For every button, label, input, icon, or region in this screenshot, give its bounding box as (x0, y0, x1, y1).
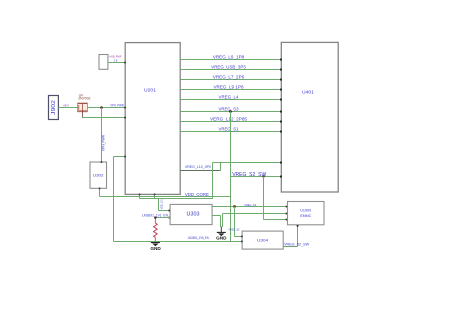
wire VREG_L7_2P6 (180, 75, 282, 81)
wire U303 out to eMMC (212, 203, 287, 208)
wire top 162 to U401 (213, 162, 282, 164)
svg-text:U201: U201 (144, 87, 156, 93)
op-amp U302 (90, 161, 107, 188)
op-amp U304 (241, 231, 283, 249)
svg-text:VPH_PWR: VPH_PWR (110, 103, 124, 107)
svg-text:VDD_CORE: VDD_CORE (185, 192, 209, 197)
wire U201 bottom stub 1 (139, 194, 141, 199)
wire lower rail 199 (140, 198, 213, 200)
svg-text:EMMC: EMMC (300, 213, 311, 218)
svg-text:VREG_USB_3P3: VREG_USB_3P3 (211, 65, 246, 70)
wire U201 bottom stub 2 (154, 194, 156, 199)
wire to U303 VIN pin (159, 199, 171, 211)
svg-text:VREG_S1: VREG_S1 (219, 127, 239, 132)
op-amp U303 (168, 204, 212, 224)
wire U201 pin to EN net left vertical (114, 156, 126, 242)
svg-text:VREG_L9_1P8: VREG_L9_1P8 (213, 55, 245, 60)
svg-text:VBAT: VBAT (63, 104, 69, 108)
power port HUB_PWR 1.8 (99, 55, 122, 70)
wire VERG_L12_2P85 (180, 117, 282, 123)
svg-text:U401: U401 (302, 90, 314, 96)
junction U303 out (233, 205, 236, 208)
wire VPH_PWR down to U302 (102, 108, 106, 163)
wire VREG_L9 1P8 (180, 85, 282, 91)
svg-text:VREG_S3: VREG_S3 (219, 107, 239, 112)
wire eMMC pin2 to gnd (223, 213, 288, 227)
svg-text:1.8: 1.8 (114, 58, 118, 62)
wire VREG_S3 (180, 107, 282, 113)
wire Q2 source to U201 (82, 117, 125, 119)
pin pad U201 left VPH_PWR (124, 107, 126, 109)
wire LM3691_1V8_EN (114, 236, 243, 242)
wire vertical net S3 long (230, 112, 232, 242)
wire Q2 source down (81, 111, 83, 118)
wire U303 gnd pin (212, 216, 220, 228)
svg-text:VPH_PWR: VPH_PWR (102, 134, 106, 151)
svg-text:VREG_L9 1P8: VREG_L9 1P8 (214, 85, 244, 90)
wire VREG_L4 (180, 95, 282, 101)
wire VREG_L9_1P8 (180, 55, 282, 61)
svg-text:U302: U302 (93, 173, 104, 177)
wire VREG_L10_3P0 (180, 164, 220, 171)
wire S2_SW down to eMMC pin3 (264, 177, 288, 221)
connector J902 (49, 96, 59, 120)
wire VREG_S2_SW to U401 (231, 176, 282, 178)
wire VREG_USB_3P3 (180, 65, 282, 71)
svg-text:VREG_S3: VREG_S3 (244, 203, 256, 207)
svg-text:U303: U303 (187, 212, 200, 218)
op-amp U1000 EMMC (288, 202, 325, 225)
svg-text:VREG_S2_SW: VREG_S2_SW (284, 242, 310, 246)
wire EN pin to pulldown (155, 217, 170, 219)
svg-text:VREG_L4: VREG_L4 (219, 95, 239, 100)
wire L10 riser right (220, 163, 222, 171)
resistor pulldown R (154, 219, 158, 243)
junction VPH_PWR (100, 106, 103, 109)
transistor Q2 (78, 93, 91, 111)
svg-text:GND: GND (216, 236, 227, 241)
wire U304 out to eMMC bottom (283, 225, 310, 247)
junction VREG_S2_SW branch (262, 175, 264, 177)
ground under resistor (150, 243, 161, 251)
svg-text:VREG_L10_3P0: VREG_L10_3P0 (185, 164, 212, 169)
svg-text:2N7002: 2N7002 (78, 97, 90, 101)
svg-text:VREG_S2: VREG_S2 (229, 228, 240, 232)
wire U302 bottom to VDD_CORE (99, 188, 101, 197)
junction pulldown (154, 217, 156, 219)
svg-text:LM3691_1V8_EN: LM3691_1V8_EN (188, 236, 209, 240)
svg-text:VREG_L7_2P6: VREG_L7_2P6 (213, 75, 245, 80)
wire VREG_S1 (180, 127, 282, 133)
junction on VREG_S3 (229, 110, 232, 113)
ground under U303 (216, 227, 227, 241)
svg-text:VREG_S2_SW: VREG_S2_SW (232, 172, 266, 178)
op-amp U401 (281, 42, 338, 192)
wire branch to U304 (229, 207, 243, 237)
svg-text:VERG_L12_2P85: VERG_L12_2P85 (210, 117, 248, 122)
wire vertical 213 (212, 163, 214, 199)
wire HUB_PWR to U201 (108, 62, 126, 64)
svg-text:GND: GND (150, 246, 161, 251)
wire J902 to Q2 gate (58, 104, 125, 108)
op-amp U201 (125, 43, 180, 195)
wire VDD_CORE (100, 192, 231, 197)
svg-text:U304: U304 (257, 239, 268, 243)
svg-text:J902: J902 (51, 100, 57, 115)
svg-text:VDD_1V1: VDD_1V1 (160, 199, 164, 209)
